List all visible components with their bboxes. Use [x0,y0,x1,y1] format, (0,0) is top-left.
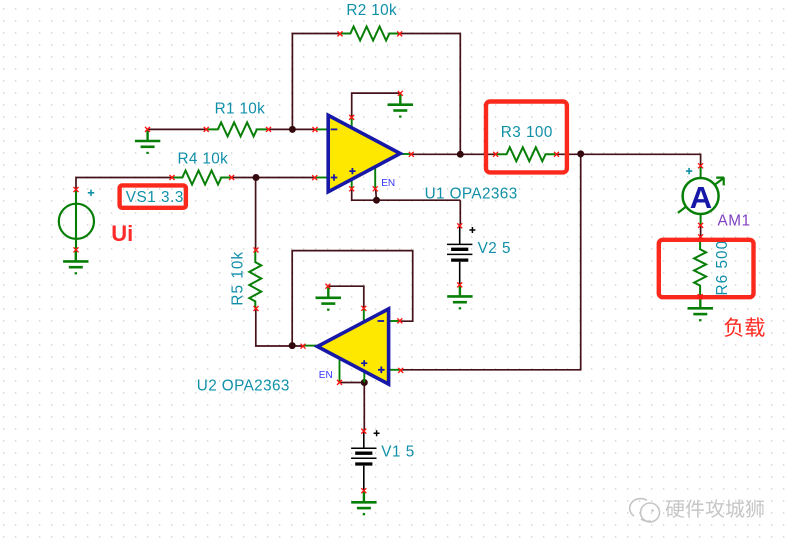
svg-text:A: A [690,180,712,215]
wire node down to R5 [255,178,257,250]
junction node U1 output/R2 [457,151,464,158]
highlight box VS1 [120,185,186,207]
resistor R4 body [172,171,232,185]
wire U1 V- rail [352,189,461,200]
ammeter AM1 arrowhead [716,177,724,185]
op-amp U1 pin stubs [315,117,412,188]
ground above U1 (V+ supply return) [388,93,413,116]
svg-text:R4 10k: R4 10k [178,150,229,167]
ammeter AM1 + mark [686,168,692,174]
wire V- rail down to V2 [459,200,461,226]
svg-text:VS1 3.3: VS1 3.3 [126,189,184,206]
wire R3 to ammeter corner [557,154,701,166]
battery V2 + mark [469,227,475,233]
svg-text:U2 OPA2363: U2 OPA2363 [197,378,290,395]
junction node U1 V- rail [373,197,380,204]
wire output node down to U2 noninverting input [401,154,581,369]
svg-text:R1 10k: R1 10k [215,101,266,118]
svg-text:V1 5: V1 5 [381,444,414,461]
ammeter AM1 stubs [700,166,702,226]
wire U2 V+ pin to ground [328,286,364,308]
label fuzai (load) char 1 [724,317,742,336]
ammeter AM1 body [683,178,719,214]
svg-text:R6 500: R6 500 [714,240,731,296]
wire U1 output to R3 [411,153,495,155]
watermark text yingjian gongchengshi [666,500,685,518]
op-amp U1 V- + mark [349,168,355,174]
resistor R2 body [340,27,400,41]
op-amp U2 V- + mark [361,360,367,366]
connection x marks [74,31,704,493]
svg-text:Ui: Ui [111,221,133,246]
ground below VS1 [63,250,88,273]
svg-text:R3 100: R3 100 [501,124,553,141]
watermark logo [630,499,660,522]
junction node R1/R2/U1- [289,126,296,133]
svg-text:U1 OPA2363: U1 OPA2363 [425,186,518,203]
op-amp U1 inverting - mark [331,128,338,130]
op-amp U1 noninverting + mark [331,174,338,181]
resistor R6 body [694,237,706,297]
highlight box R6 [659,240,754,297]
wire R5 to U2 output node [256,309,303,347]
source VS1 + mark [88,190,94,196]
ground below V2 [447,285,472,308]
ground below V1 [351,491,376,514]
svg-text:R5 10k: R5 10k [229,251,246,306]
junction U2 output node [289,342,296,349]
op-amp U2 pin stubs [303,308,401,382]
wire R4 to U1 noninverting input [232,177,315,179]
svg-text:R2 10k: R2 10k [346,2,397,19]
op-amp U2 body [317,309,388,384]
ground below R6 [688,297,713,320]
junction U2 V- rail [361,379,368,386]
svg-text:EN: EN [381,178,395,189]
ammeter AM1 arrow shaft [678,178,723,213]
op-amp U1 body [328,115,400,192]
wire R2 right to output node (feedback loop right) [400,34,461,155]
op-amp U2 noninverting + mark [378,367,385,374]
junction output node after R3 [577,150,584,157]
resistor R3 body [496,147,557,161]
op-amp U2 inverting - mark [378,320,385,322]
resistor R5 body [249,249,261,308]
battery V2 body [459,226,461,245]
svg-text:AM1: AM1 [718,213,751,230]
wire U2 EN to V- rail and down to V1 [340,383,365,432]
ground at R1 input [135,130,160,153]
battery V1 body [363,431,365,448]
highlight box R3 [486,102,567,173]
wire node to R2 left (feedback loop left+top) [292,34,340,130]
wire VS1 to R4 [76,178,172,190]
wire ground to R1 [148,128,207,130]
junction node R4/R5/U1+ [253,174,260,181]
wire U1 EN pin drop [375,189,378,200]
svg-text:EN: EN [319,370,333,381]
wire ammeter to R6 [700,225,702,236]
wire U2 feedback loop [292,251,413,346]
svg-text:V2 5: V2 5 [478,240,511,257]
label fuzai (load) char 2 [745,317,764,337]
ground at U2 V+ (supply return) [316,286,341,309]
wire U1 V+ pin to ground [352,93,401,117]
battery V1 + mark [374,430,380,436]
resistor R1 body [206,122,268,136]
wire R1 to U1 inverting input node [269,128,316,130]
source VS1 body [59,190,94,250]
